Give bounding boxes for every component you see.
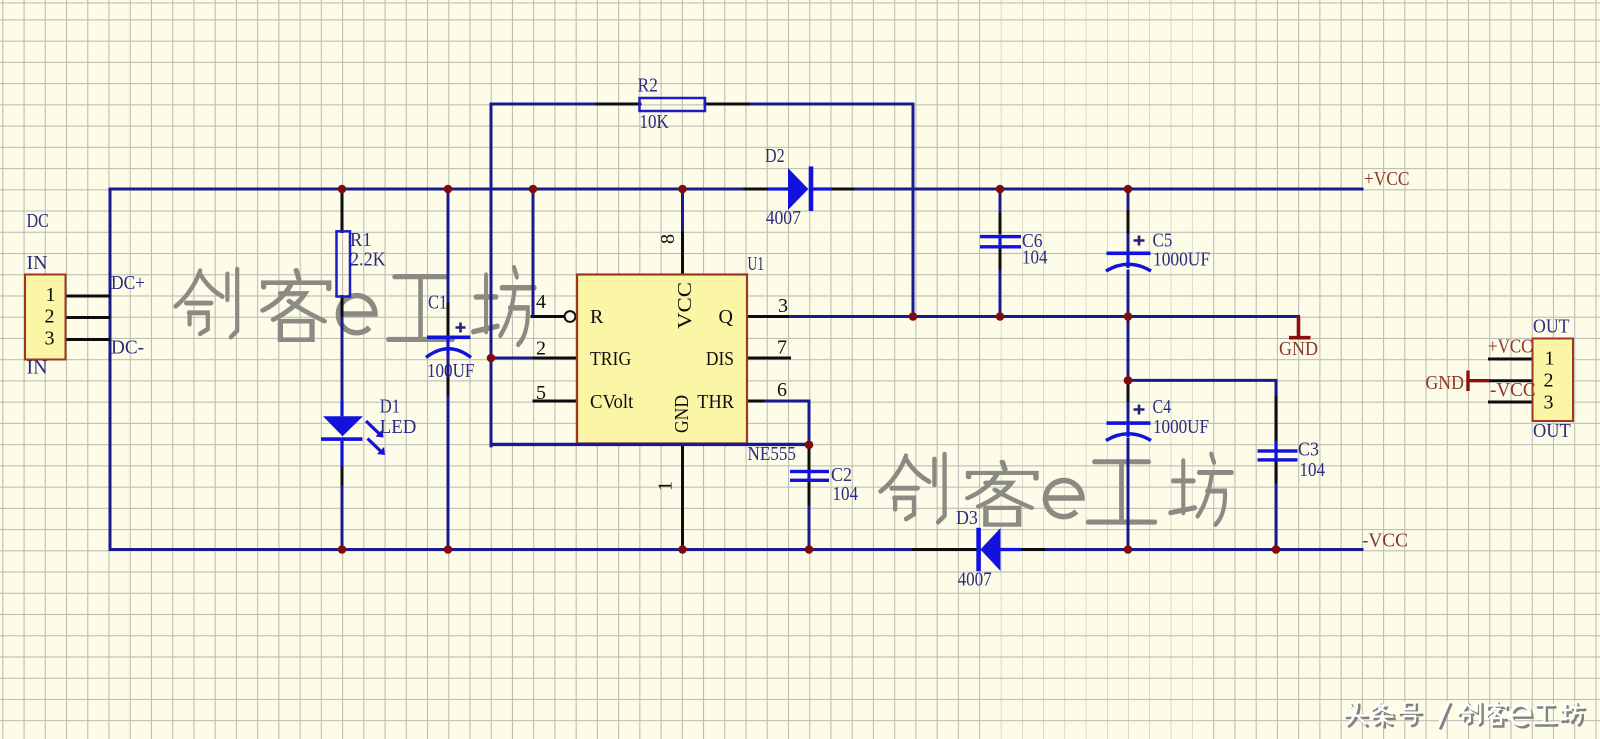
wire R2 left vertical down to pin2 node [490,104,493,446]
junction pin4 branch at +VCC [529,185,538,194]
wire pin4 black stub [532,315,564,318]
junction C6 at Q line [996,312,1005,321]
junction R2 feedback at Q line [909,312,918,321]
wire C4 bottom to -VCC rail [1127,440,1130,550]
LED D1 [321,396,416,467]
svg-text:GND: GND [1279,338,1318,360]
junction R1 at +VCC [338,185,347,194]
wire pin8 VCC from rail [681,189,684,233]
svg-text:DIS: DIS [706,348,734,370]
wire D1 bottom black lead [341,467,344,487]
svg-text:C1: C1 [428,292,447,314]
svg-text:-VCC: -VCC [1490,379,1536,401]
svg-text:DC-: DC- [111,337,144,359]
wire pin5 CVolt stub [534,400,577,403]
capacitor C5 [1106,230,1210,272]
watermark 创客e工坊 upper-left [176,268,535,345]
svg-text:R: R [590,306,604,328]
svg-text:7: 7 [777,337,787,359]
wire C1 black leads [447,304,450,397]
svg-text:4007: 4007 [766,207,801,229]
capacitor C6 [980,230,1048,269]
svg-text:OUT: OUT [1533,316,1570,338]
svg-text:104: 104 [1022,247,1048,269]
wire pin6 to C2 column [766,401,809,445]
svg-text:VCC: VCC [674,282,696,329]
svg-text:C4: C4 [1153,396,1172,418]
wire C5 black lead [1127,212,1130,233]
svg-text:3: 3 [45,328,55,350]
wire +VCC rail black lead segments at D2 [745,188,853,191]
svg-text:3: 3 [778,295,788,317]
capacitor C3 [1258,439,1326,482]
wire pin6 THR black stub [747,400,766,403]
connector OUT [1533,316,1574,443]
connector DC IN [25,210,66,379]
capacitor C1 [426,292,474,383]
wire TRIG node across under IC to THR/C2 node [491,443,809,446]
junction C4 top branch [1124,376,1133,385]
junction C5 at +VCC [1124,185,1133,194]
svg-text:4: 4 [536,291,546,313]
svg-text:8: 8 [657,234,679,244]
svg-text:D2: D2 [765,145,785,167]
svg-text:IN: IN [27,252,48,274]
svg-text:DC: DC [27,210,49,232]
wire reset pin4 from +VCC [532,189,535,317]
svg-text:GND: GND [1426,372,1464,394]
op-amp timer U1 NE555 [536,234,796,491]
junction C3 at -VCC [1272,545,1281,554]
wire -VCC rail [110,548,1362,551]
wire D1 to -VCC rail [341,487,344,550]
wire R1 to D1 [341,318,344,400]
junction C1 at -VCC [444,545,453,554]
svg-text:6: 6 [777,379,787,401]
svg-text:Q: Q [719,306,734,328]
svg-text:2.2K: 2.2K [350,249,386,271]
diode D2 [765,145,832,229]
wire Q output line [788,315,1299,318]
wire -VCC rail black leads at D3 [914,548,1045,551]
svg-text:100UF: 100UF [427,360,474,382]
wire pin2 black stub [534,357,577,360]
wire C2 black leads [808,445,811,507]
wire R1 bottom lead black then blue [341,297,344,319]
junction THR C2 node [805,441,814,450]
svg-text:-VCC: -VCC [1362,530,1408,552]
junction C5 at Q line [1124,312,1133,321]
svg-text:R2: R2 [638,74,658,96]
svg-text:1: 1 [46,284,56,306]
ground symbol at OUT connector [1426,371,1490,395]
junction pin1 at -VCC [678,545,687,554]
wire DC connector pin stubs [66,296,110,340]
wire TRIG pin2 [491,357,534,360]
svg-text:5: 5 [536,382,546,404]
svg-text:2: 2 [1544,370,1554,392]
resistor R2 [638,74,706,133]
junction C1 at +VCC [444,185,453,194]
svg-text:IN: IN [27,357,48,379]
svg-text:104: 104 [833,483,859,505]
wire C6 black top lead [999,211,1002,271]
svg-text:OUT: OUT [1533,420,1571,442]
banner 头条号 / 创客e工坊 [1345,701,1585,729]
wire C5 to C4 junction [1127,317,1130,381]
svg-text:2: 2 [536,338,546,360]
wire branch to C3 [1128,380,1276,397]
junction D1 at -VCC [338,545,347,554]
wire pin7 DIS stub [747,357,790,360]
svg-text:LED: LED [380,416,417,438]
svg-text:U1: U1 [748,253,765,275]
svg-text:1: 1 [655,481,677,491]
junction C4 at -VCC [1124,545,1133,554]
svg-text:1000UF: 1000UF [1153,249,1210,271]
resistor R1 [337,229,387,297]
wire OUT connector pin stubs [1490,359,1533,402]
diode D3 [956,507,1021,591]
junction C2 at -VCC [805,545,814,554]
wire C4 black top lead [1127,382,1130,404]
svg-text:1000UF: 1000UF [1153,416,1209,438]
wire C3 black leads [1275,397,1278,485]
wire C5 bottom to Q line [1127,271,1130,317]
svg-text:TRIG: TRIG [590,348,631,370]
wire C1 top from +VCC [447,189,450,304]
wire C4 upper blue lead [1127,404,1130,422]
wire C1 bottom to -VCC rail [447,355,450,550]
junction TRIG node [487,354,496,363]
svg-text:D1: D1 [380,396,400,418]
svg-text:4007: 4007 [958,569,992,591]
svg-text:3: 3 [1544,392,1554,414]
svg-text:THR: THR [697,391,734,413]
wire +VCC rail [110,188,1362,191]
wire pin1 GND black stub down to -VCC [681,444,684,550]
wire R1 top black lead [341,191,344,232]
wire pin8 black stub [681,233,684,275]
ground symbol mid schematic [1279,317,1318,361]
capacitor C2 [790,464,858,505]
wire R2 black leads [597,103,748,106]
svg-text:10K: 10K [640,111,670,133]
wire C5 top from +VCC [1127,189,1130,252]
wire R2 top line [491,103,913,106]
svg-text:2: 2 [45,306,55,328]
svg-text:C3: C3 [1298,439,1319,461]
wire pin3 black stub [747,315,788,318]
svg-text:+VCC: +VCC [1364,168,1410,190]
svg-text:1: 1 [1545,348,1555,370]
svg-text:NE555: NE555 [748,443,797,465]
wire C2 bottom to -VCC rail [808,507,811,550]
capacitor C4 [1106,396,1209,441]
svg-text:D3: D3 [956,507,978,529]
svg-text:GND: GND [671,395,693,433]
wire C6 bottom to Q line [999,189,1002,317]
wire left vertical DC input [109,189,112,550]
svg-text:CVolt: CVolt [590,391,634,413]
watermark 创客e工坊 lower-middle [881,454,1232,525]
svg-text:DC+: DC+ [111,272,145,294]
junction pin8 at +VCC [678,185,687,194]
wire R2 right vertical down to Q line [912,104,915,317]
svg-text:+VCC: +VCC [1488,336,1533,358]
junction C6 at +VCC [996,185,1005,194]
svg-text:104: 104 [1300,459,1326,481]
pin4 inversion bubble [565,311,576,322]
wire C3 bottom to -VCC rail [1275,485,1278,550]
